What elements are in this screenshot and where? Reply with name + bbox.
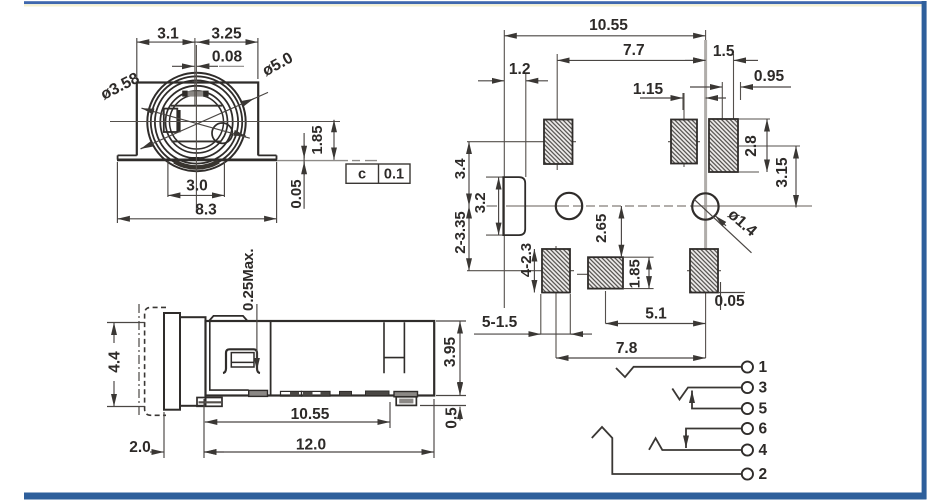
side pad C outline: [302, 391, 331, 396]
inner flat chord top: [171, 105, 222, 107]
top contact right dark block: [203, 91, 208, 97]
dim 10.55 line: [205, 421, 390, 423]
front view dim texts: [98, 26, 326, 219]
PCB dim texts: [452, 17, 791, 357]
pin 6 circle: [742, 423, 753, 434]
hatched pads: [542, 119, 738, 293]
left hole circle: [556, 193, 582, 219]
dim 3.95 line: [459, 321, 461, 396]
left slot edge line: [503, 30, 505, 308]
svg-text:0.05: 0.05: [288, 179, 305, 208]
pin 4 circle: [742, 444, 753, 455]
dim 3.15 line: [795, 146, 797, 208]
svg-text:10.55: 10.55: [589, 17, 628, 34]
pad1 center vertical: [556, 54, 558, 170]
svg-text:0.25Max.: 0.25Max.: [240, 248, 257, 311]
dim 0.05 vertical line: [303, 133, 305, 209]
dim 0.08 line with outside arrows: [172, 65, 194, 67]
side body divider: [270, 321, 272, 396]
dim 10.55 extension line: [389, 402, 391, 428]
top contact left dark block: [182, 91, 187, 97]
side barrel flange: [164, 313, 180, 410]
pad4 edge ext verticals: [541, 294, 571, 334]
svg-text:8.3: 8.3: [195, 202, 217, 219]
svg-text:0.1: 0.1: [384, 167, 404, 183]
dim 1.85 line: [333, 120, 335, 160]
pad top-left: [544, 120, 573, 165]
thick gray column centerline: [704, 40, 707, 292]
barrel ring r=49.5: [147, 73, 245, 171]
svg-text:5-1.5: 5-1.5: [482, 314, 518, 331]
flatness frame c 0.1: [346, 164, 410, 183]
svg-text:1.85: 1.85: [309, 125, 326, 154]
side right foot gray pad: [394, 392, 418, 397]
svg-text:1.15: 1.15: [633, 81, 664, 98]
pad4 crosshair vertical: [555, 246, 557, 358]
svg-text:3.1: 3.1: [157, 26, 179, 43]
side main body: [206, 321, 435, 396]
pad6 center ext to 7.8: [705, 292, 707, 358]
side pad B outline: [281, 391, 302, 396]
dim 5-1.5 leader: [474, 333, 592, 335]
pin 6 line with switch arrow: [686, 429, 742, 437]
dim 4.4 extension lines: [107, 323, 145, 407]
front right flange tab: [258, 155, 276, 159]
frame top blue bar: [24, 1, 927, 4]
10.55 ext top: [705, 30, 707, 40]
svg-text:6: 6: [759, 421, 768, 438]
svg-text:10.55: 10.55: [291, 406, 330, 423]
dim 2-3.35 line: [468, 206, 470, 271]
svg-text:4: 4: [759, 442, 768, 459]
dim 2.65 line: [620, 206, 622, 257]
svg-text:0.05: 0.05: [715, 293, 746, 310]
pad bottom-left: [542, 249, 570, 293]
dim 12.0 extension line: [433, 399, 435, 458]
side right foot: [396, 397, 416, 406]
front view center lines: [110, 38, 340, 213]
svg-text:1.5: 1.5: [713, 43, 735, 60]
barrel ring r=46: [151, 76, 242, 167]
frame bottom blue bar: [24, 493, 927, 500]
side pad dark small: [340, 391, 352, 395]
pad bottom-middle: [588, 257, 623, 288]
pad top-middle: [671, 120, 697, 164]
side dash-dot centerline: [138, 304, 140, 416]
svg-text:4.4: 4.4: [107, 351, 124, 373]
frame right blue bar: [922, 1, 927, 499]
dim mid arrows at center: [183, 41, 195, 43]
right hole circle: [692, 193, 718, 219]
land pattern extension/center lines: [467, 30, 800, 358]
dim 0.5 extension line: [420, 405, 466, 407]
dim 3.1 extension lines: [137, 38, 258, 79]
dim 1.5 line outside arrows: [685, 59, 706, 61]
front left flange tab: [118, 155, 137, 159]
phi1.4 leader through right circle: [694, 199, 751, 252]
pin 4 line with contact bump: [649, 438, 742, 450]
side view texts: [107, 248, 461, 456]
dim 0.05 mark: [720, 282, 722, 310]
pad bottom-right: [690, 249, 718, 293]
svg-text:7.8: 7.8: [616, 340, 638, 357]
svg-text:3.0: 3.0: [186, 178, 208, 195]
dim 3.0 line: [168, 194, 225, 196]
pad2 crosshair: [668, 93, 700, 167]
dim 0.05 arrows: [303, 145, 305, 159]
dim 1.15 tick: [682, 93, 684, 110]
svg-text:c: c: [358, 167, 366, 183]
pad3 top/bottom ext: [739, 119, 770, 172]
dim 4-2.3 line: [533, 249, 535, 293]
svg-text:5: 5: [759, 401, 768, 418]
pin 5 line with switch arrow: [692, 400, 742, 409]
pin 2 line with sleeve contact: [592, 427, 742, 474]
slot right edge ext: [525, 74, 527, 177]
dim 2.8 line: [766, 119, 768, 172]
PCB dimensions: [469, 36, 796, 358]
svg-text:7.7: 7.7: [623, 42, 645, 59]
bore circle r=31: [166, 91, 228, 153]
dim phi3.58 leader diagonal: [142, 108, 250, 138]
dim 1.85 line: [648, 257, 650, 288]
dim 7.8 line: [556, 357, 706, 359]
svg-text:2.0: 2.0: [129, 439, 151, 456]
svg-text:3.4: 3.4: [452, 158, 469, 180]
front body outline: [137, 83, 258, 156]
side inner cavity wall: [210, 321, 249, 390]
svg-text:3.15: 3.15: [774, 157, 791, 188]
pin 1 line with tip contact: [616, 367, 742, 377]
dim 3.1 / 3.25 line: [137, 41, 258, 43]
dim 2.0 line with outside arrows: [150, 451, 164, 453]
svg-text:2.8: 2.8: [743, 135, 760, 157]
dim 12.0 line: [204, 451, 434, 453]
horizontal centerline: [110, 121, 340, 123]
side pad D dark: [366, 391, 390, 396]
side contact staple inner: [231, 353, 254, 367]
dim 3.0 extension lines: [168, 162, 225, 198]
dim 1.15 line outside arrows: [670, 97, 683, 99]
side pad dark marks: [290, 392, 299, 396]
pad5 top/bottom ext: [624, 257, 654, 288]
svg-text:3.95: 3.95: [442, 337, 459, 368]
0.25max leader arrow: [256, 304, 258, 358]
dim 1.2 line outside arrows: [491, 80, 504, 82]
frame top yellow line: [24, 4, 927, 6]
vertical centerline: [195, 38, 197, 213]
side left foot pad: [197, 398, 222, 407]
pad6 horizontal arm: [687, 270, 721, 272]
dim 3.4 line: [468, 142, 470, 206]
pin 1 circle: [742, 361, 753, 372]
left contact rectangle: [164, 109, 178, 132]
datum extension line (gray, to the right): [277, 160, 377, 162]
dim 10.55 line: [504, 35, 705, 37]
side contact staple: [223, 349, 260, 373]
svg-text:12.0: 12.0: [296, 437, 326, 454]
side right slot: [384, 322, 404, 373]
dim 4.4 line: [113, 323, 115, 344]
svg-text:5.1: 5.1: [645, 306, 667, 323]
pad4 horizontal ext: [467, 270, 574, 272]
svg-text:0.08: 0.08: [212, 49, 243, 66]
pad1 center horizontal: [467, 141, 576, 143]
pad3 mid horizontal ext: [739, 145, 800, 147]
pin 3 line with contact: [672, 388, 742, 400]
svg-text:1.85: 1.85: [627, 259, 644, 288]
pin 3 circle: [742, 382, 753, 393]
dim 8.3 line: [117, 218, 276, 220]
svg-text:0.5: 0.5: [444, 407, 461, 429]
pad3 ext right verticals: [722, 54, 740, 120]
front view dimensions: [117, 38, 334, 223]
svg-text:0.95: 0.95: [754, 68, 785, 85]
bore inner circle r=27: [170, 95, 224, 149]
dim 7.7 line: [557, 59, 705, 61]
pin 5 circle: [742, 403, 753, 414]
svg-text:3: 3: [759, 380, 768, 397]
side top bump (0.25 max): [209, 316, 248, 321]
svg-text:1.2: 1.2: [509, 61, 531, 78]
side view dimensions: [107, 304, 466, 458]
barrel ring r=41.8: [155, 80, 238, 163]
front flange bottom thick line: [117, 158, 277, 161]
svg-text:1: 1: [759, 359, 768, 376]
top contact gray bar: [183, 91, 208, 96]
svg-text:2: 2: [759, 466, 768, 483]
dim phi5.0 leader diagonal: [141, 92, 269, 148]
dim 3.95 extension lines: [436, 321, 466, 396]
dim 5.1 line: [606, 323, 706, 325]
barrel ring r=36.2: [160, 86, 232, 158]
dim 3.2 line: [498, 177, 500, 235]
inner flat chord bottom: [172, 140, 222, 142]
jack horizontal centerline: [506, 205, 812, 207]
side dashed plug outline: [145, 307, 166, 415]
bottom tab center mark: [189, 157, 200, 161]
bottom dark tab arc: [175, 162, 219, 168]
left contact dark bar: [177, 110, 181, 132]
pin 2 circle: [742, 468, 753, 479]
dim 8.3 extension lines: [117, 162, 276, 223]
dim 0.08 gray tail under text: [219, 65, 244, 67]
side pad A gray: [249, 390, 268, 396]
left locating slot: [503, 177, 525, 235]
svg-text:2.65: 2.65: [593, 214, 610, 243]
slot top/bottom ext: [486, 177, 503, 235]
dim 2.0 extension lines: [164, 399, 204, 458]
pad top-right: [709, 119, 738, 172]
side barrel sleeve: [180, 317, 206, 406]
svg-text:2-3.35: 2-3.35: [452, 211, 469, 254]
svg-text:4-2.3: 4-2.3: [518, 243, 535, 277]
svg-text:3.25: 3.25: [211, 26, 242, 43]
small circle contact (bottom right of bore): [212, 123, 232, 143]
dim 0.5 arrows outside: [459, 380, 461, 394]
dim 0.95 line outside arrows: [709, 86, 722, 88]
svg-text:3.2: 3.2: [472, 192, 489, 213]
pad5 crosshair: [577, 274, 606, 323]
